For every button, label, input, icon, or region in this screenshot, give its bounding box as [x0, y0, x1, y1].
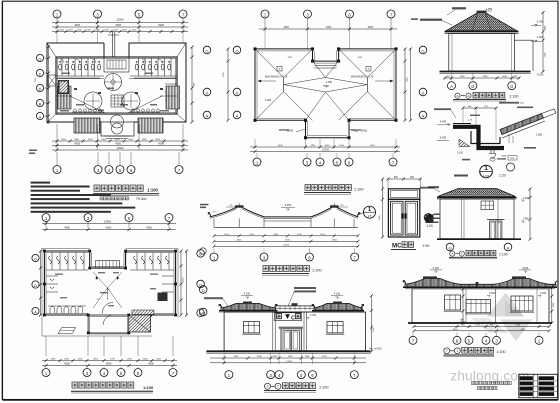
front elevation left roof (curved, tiled) [219, 302, 278, 311]
svg-text:A: A [202, 310, 205, 315]
floor plan right vertical dimension lines [180, 250, 189, 317]
front elevation pilasters [273, 312, 307, 351]
side elevation ground line [440, 71, 531, 73]
roof section dimension lines [213, 234, 360, 248]
svg-text:4.250: 4.250 [326, 81, 333, 84]
svg-text:D: D [422, 90, 425, 95]
svg-text:4.450: 4.450 [285, 203, 292, 207]
svg-text:0.900: 0.900 [523, 218, 530, 221]
svg-text:4.450: 4.450 [440, 120, 447, 123]
project description text (simulated CJK) [472, 381, 512, 389]
svg-text:2151: 2151 [358, 57, 364, 59]
svg-text:4.150: 4.150 [433, 267, 440, 270]
svg-text:0.150: 0.150 [457, 151, 464, 154]
svg-text:D: D [39, 87, 42, 91]
site plan bottom exterior stairs right (hatched) [138, 118, 163, 133]
svg-text:1300: 1300 [86, 30, 92, 32]
gutter detail left annotations [434, 108, 470, 160]
floor plan column squares [43, 250, 177, 317]
roof plan right axis circles and dims [404, 46, 427, 122]
svg-text:1300: 1300 [339, 145, 345, 147]
stair detail bottom-left note [454, 175, 468, 177]
svg-text:4000: 4000 [106, 226, 112, 230]
svg-text:-0.020: -0.020 [536, 74, 544, 77]
svg-text:4300: 4300 [115, 142, 121, 146]
svg-text:1800: 1800 [502, 76, 508, 78]
svg-text:G: G [34, 257, 37, 261]
svg-text:4300: 4300 [158, 142, 164, 146]
floor plan porch [88, 315, 129, 334]
floor plan bottom axis circles 1 3 4 5 6 7 [42, 367, 177, 377]
rear elevation title [444, 347, 506, 356]
svg-text:2151: 2151 [288, 57, 294, 59]
front elevation right dim column [369, 294, 382, 353]
svg-text:DN50: DN50 [501, 156, 507, 158]
svg-text:4300: 4300 [158, 23, 164, 27]
svg-text:2%: 2% [213, 211, 216, 213]
rear elevation right dim column [550, 286, 555, 325]
site plan dark planter block left [58, 80, 69, 94]
svg-text:1300: 1300 [115, 139, 121, 141]
svg-text:1800: 1800 [155, 139, 161, 141]
roof plan left axis circles twin columns [203, 46, 241, 122]
site plan roof overhang outline with notch [47, 43, 104, 122]
roof plan title (simulated CJK) [304, 185, 364, 195]
floor plan exterior stairs hatched (bottom right) [129, 315, 151, 332]
floor drainage plan: top axis circles [42, 214, 173, 229]
site plan top dimension lines [52, 18, 188, 33]
site plan bottom porch [101, 122, 134, 136]
svg-text:4.150: 4.150 [483, 174, 490, 178]
svg-text:1300: 1300 [64, 359, 70, 361]
svg-text:12900: 12900 [286, 361, 293, 363]
rear elevation eave thick line [403, 286, 557, 288]
rear elevation window right [510, 292, 547, 312]
site plan interior stair hatch left [58, 86, 72, 109]
svg-text:A: A [206, 113, 209, 118]
svg-text:G: G [510, 84, 513, 89]
watermark zhulong logo diamond [471, 293, 533, 342]
rear elevation left small dims [460, 288, 465, 325]
svg-text:G: G [448, 245, 451, 250]
svg-text:1500: 1500 [143, 359, 149, 361]
site plan bottom dimension lines [52, 124, 188, 152]
svg-text:1:100: 1:100 [497, 350, 506, 354]
svg-text:G: G [39, 57, 42, 61]
svg-text:1:50: 1:50 [426, 224, 432, 228]
rear elevation: apex level labels [430, 267, 531, 273]
rear elevation window left [444, 295, 462, 311]
svg-text:±0.000: ±0.000 [374, 348, 382, 351]
floor plan right wing stalls and fixtures [130, 253, 174, 292]
svg-text:1:50: 1:50 [423, 244, 430, 248]
site plan bottom axis circles 1 3 4 5 6 7 [53, 152, 183, 174]
svg-text:4300: 4300 [64, 362, 70, 366]
site plan central table grid [111, 95, 124, 107]
svg-text:1500: 1500 [68, 30, 74, 32]
right small elevation right levels [521, 188, 532, 241]
svg-text:1%: 1% [106, 289, 109, 291]
svg-text:1800: 1800 [51, 359, 57, 361]
rear elevation wall body [412, 289, 549, 323]
front elevation right window [326, 322, 345, 335]
svg-text:1300: 1300 [77, 30, 83, 32]
svg-text:1500: 1500 [122, 30, 128, 32]
floor plan right wing bench hatch [132, 310, 154, 315]
svg-text:1:100: 1:100 [319, 385, 329, 389]
roof section profile curves [208, 204, 360, 219]
front elevation center parapet [276, 303, 315, 310]
roof plan inner eave line [257, 51, 311, 118]
svg-text:4300: 4300 [148, 362, 154, 366]
site plan area note [100, 197, 147, 201]
svg-text:1%: 1% [96, 299, 99, 301]
svg-text:1800: 1800 [460, 76, 466, 78]
svg-text:12900: 12900 [116, 18, 124, 22]
svg-text:1800: 1800 [127, 359, 133, 361]
roof plan middle valley diamond [284, 78, 368, 93]
roof plan corridor connector lines in notch [315, 65, 337, 67]
site/tour plan: top axis circles 1 3 5 7 [53, 10, 187, 23]
gutter detail thick channel profile [453, 127, 504, 148]
svg-text:1300: 1300 [59, 30, 65, 32]
right small elevation ground [437, 238, 521, 240]
front elevation title [264, 383, 329, 392]
svg-text:4300: 4300 [74, 142, 80, 146]
front elevation sign board men/women [275, 313, 302, 322]
svg-text:1: 1 [267, 385, 269, 389]
side elevation right level marks and dim column [531, 11, 547, 77]
svg-text:4500: 4500 [370, 145, 376, 147]
svg-text:A: A [451, 252, 453, 256]
svg-text:D: D [236, 90, 239, 95]
floor plan title (simulated CJK) [71, 382, 154, 393]
floor plan center door arcs [102, 302, 113, 313]
margin note near roof plan right [411, 18, 418, 20]
svg-text:G: G [421, 48, 424, 53]
roof section right detail circle [358, 206, 376, 218]
right small elevation clerestory window [481, 201, 494, 210]
roof plan hip lines right wing [339, 49, 396, 120]
MC door detail: door frame and leaves [388, 199, 419, 237]
front elevation ground line [206, 350, 370, 352]
stair detail extra annotation bars [468, 107, 536, 149]
svg-text:79.3m²: 79.3m² [136, 197, 147, 201]
svg-text:4.450: 4.450 [440, 136, 447, 139]
site plan misc fixtures and door swings [60, 59, 163, 113]
floor plan central vestibule louver [96, 261, 120, 268]
roof plan bottom axis circles [253, 153, 397, 166]
svg-text:1:100: 1:100 [312, 269, 322, 273]
svg-text:WSG4/WSG2-2-1.75: WSG4/WSG2-2-1.75 [265, 75, 288, 78]
front elevation right roof (curved, tiled) [312, 302, 364, 311]
side elevation eave band [445, 31, 519, 33]
MC door left dimension line [382, 179, 384, 237]
svg-text:1:100: 1:100 [499, 252, 508, 256]
gutter detail sloped slab hatch [500, 109, 556, 138]
front elevation axis circles [225, 371, 358, 379]
front elevation eave thick line [219, 310, 278, 312]
svg-text:4300: 4300 [285, 240, 291, 242]
rear elevation axis circles [409, 333, 543, 345]
front elevation wall body [224, 312, 365, 351]
svg-text:1: 1 [484, 165, 488, 172]
floor plan ramp left (hatched) [58, 328, 76, 334]
svg-text:1300: 1300 [113, 30, 119, 32]
floor plan left wing urinal row [48, 306, 86, 313]
left margin small annotations [29, 150, 37, 152]
svg-text:5400: 5400 [183, 277, 185, 283]
site plan fixtures row along bottom walls [74, 109, 160, 112]
title block frame [519, 374, 558, 397]
svg-text:1300: 1300 [74, 139, 80, 141]
svg-text:D: D [471, 84, 474, 89]
gutter detail wedge flashing [459, 139, 470, 147]
title block black cells [519, 374, 558, 397]
svg-text:D: D [34, 284, 37, 288]
floor plan right wing mop sink dark [158, 293, 168, 302]
rear elevation bottom dimensions [413, 325, 551, 333]
svg-text:12900: 12900 [116, 146, 124, 150]
roof section eave and wall lines [214, 219, 358, 228]
site plan bottom exterior stairs left (hatched) [74, 118, 100, 133]
svg-text:1300: 1300 [156, 359, 162, 361]
front elevation top annotations [204, 287, 343, 308]
MC right annotation [428, 186, 439, 188]
site plan left axis circles G E D B A [35, 45, 50, 124]
svg-text:1300: 1300 [132, 30, 138, 32]
svg-text:1.280: 1.280 [536, 134, 543, 137]
svg-text:4.350: 4.350 [537, 21, 544, 24]
roof section apex label 4.450 [281, 203, 295, 211]
site plan lobby large circles [105, 74, 122, 91]
svg-text:13100: 13100 [322, 148, 330, 152]
rear elevation window middle [465, 292, 496, 314]
svg-text:1500: 1500 [78, 359, 84, 361]
roof plan top dimension line [259, 26, 397, 30]
floor plan top dimension lines [42, 220, 176, 231]
svg-text:D: D [202, 288, 205, 293]
svg-text:1300: 1300 [310, 145, 316, 147]
svg-text:1:20: 1:20 [499, 174, 506, 178]
right small elevation axis circles [446, 243, 454, 251]
site plan roof hip corner miters [47, 43, 56, 57]
roof plan outer eave outline with notch and porch [255, 49, 313, 120]
right small elevation roof [437, 189, 517, 200]
svg-text:A: A [450, 84, 453, 89]
svg-text:4300: 4300 [368, 26, 374, 29]
svg-text:1300: 1300 [104, 30, 110, 32]
site plan left attached ramp [48, 75, 56, 86]
svg-text:1500: 1500 [88, 139, 94, 141]
roof section title (simulated CJK) [262, 266, 322, 276]
roof section slope % labels [213, 205, 348, 214]
svg-text:4000: 4000 [106, 362, 112, 366]
roof plan: top axis circles [261, 10, 395, 49]
svg-text:A: A [456, 94, 458, 98]
svg-text:2.200: 2.200 [537, 36, 544, 39]
site plan interior partitions right wing [130, 58, 177, 100]
svg-text:2%: 2% [229, 205, 232, 207]
svg-text:2.200: 2.200 [523, 197, 530, 200]
svg-text:1500: 1500 [325, 145, 331, 147]
rear elevation right roof [476, 276, 558, 287]
floor plan left vertical dimension line [40, 251, 42, 315]
detail reference circle 1 1:20 [480, 165, 506, 178]
site plan right vertical dimension line [191, 46, 196, 124]
svg-text:2400: 2400 [483, 76, 489, 78]
svg-text:1:100: 1:100 [147, 188, 158, 193]
svg-text:2%: 2% [340, 205, 343, 207]
gutter detail drain pipe and fittings [489, 148, 517, 171]
right small elevation: annotations [420, 187, 434, 189]
svg-text:G: G [205, 48, 208, 53]
svg-text:1500: 1500 [128, 139, 134, 141]
svg-text:4300: 4300 [74, 23, 80, 27]
floor plan bottom dimension lines [42, 336, 177, 367]
floor plan slope arrows in lobby [93, 272, 122, 308]
svg-text:4.150: 4.150 [522, 267, 529, 270]
svg-text:1:100: 1:100 [509, 94, 519, 98]
site plan interior partitions left wing [56, 58, 104, 100]
svg-text:D: D [206, 90, 209, 95]
svg-text:1800: 1800 [61, 139, 67, 141]
svg-text:A: A [236, 113, 239, 118]
svg-text:4300: 4300 [146, 226, 152, 230]
roof section axis circles 1 3 6 7 [200, 248, 359, 261]
front elevation door [279, 327, 303, 351]
svg-text:1:100: 1:100 [354, 188, 364, 192]
MC detail top dimension line [387, 177, 422, 189]
site plan inner wall rectangle [56, 57, 177, 114]
right small elevation wall body [440, 199, 514, 239]
side elevation bottom dimensions [443, 73, 520, 80]
floor plan apron (san shui) outline [42, 249, 153, 337]
roof drainage section: left margin note [200, 204, 209, 206]
svg-text:1: 1 [456, 349, 458, 353]
svg-text:4300: 4300 [326, 26, 332, 29]
MC door section mark circle [424, 214, 439, 224]
svg-text:12900: 12900 [104, 220, 112, 224]
svg-text:4.350: 4.350 [486, 7, 493, 11]
svg-text:C: C [291, 315, 295, 321]
svg-text:1300: 1300 [142, 139, 148, 141]
svg-text:1500: 1500 [95, 30, 101, 32]
front elevation: left axis circles D A [199, 286, 207, 294]
svg-text:DN50: DN50 [361, 130, 368, 133]
site plan interior text smudges [60, 73, 169, 112]
floor plan left axis circles [32, 254, 39, 314]
MC door detail: transom [388, 189, 419, 200]
svg-text:4500: 4500 [278, 145, 284, 147]
roof plan slope labels and arrows [258, 57, 393, 102]
svg-text:4300: 4300 [115, 23, 121, 27]
rear elevation ground line [408, 322, 552, 324]
svg-text:7: 7 [277, 385, 279, 389]
svg-text:1: 1 [368, 207, 371, 213]
floor plan interior text smudges [55, 272, 158, 306]
site plan axis leader lines [57, 23, 183, 44]
svg-text:4300: 4300 [332, 240, 338, 242]
side elevation rear wing line [515, 39, 534, 41]
svg-text:4.250: 4.250 [265, 99, 272, 102]
right small elevation title [449, 250, 508, 258]
roof plan column squares [254, 47, 398, 139]
svg-text:4.150: 4.150 [244, 293, 251, 296]
side elevation axis circles A D G [448, 82, 516, 90]
site plan chimney/flag pole lines at top notch [112, 32, 114, 58]
svg-text:7500: 7500 [35, 77, 37, 83]
site plan title block (simulated CJK) [93, 185, 159, 196]
svg-text:4300: 4300 [64, 226, 70, 230]
svg-text:2.700: 2.700 [310, 314, 317, 317]
svg-text:2.400: 2.400 [489, 292, 496, 295]
side elevation wall body [449, 34, 515, 71]
side elevation A-G: roof annotations [420, 7, 493, 25]
svg-text:7: 7 [446, 349, 448, 353]
floor plan right axis circles G D A [197, 250, 205, 317]
svg-text:WSG4/WSG2-2-1.75: WSG4/WSG2-2-1.75 [351, 75, 374, 78]
site plan interior corridor lines [56, 79, 177, 113]
svg-text:MC: MC [392, 243, 402, 250]
side elevation hip roof with tile texture [446, 11, 517, 31]
side elevation title [453, 92, 519, 101]
front elevation bottom dimensions [210, 353, 366, 364]
MC door title [391, 242, 430, 250]
legend text bars [31, 182, 136, 213]
svg-text:1:100: 1:100 [143, 385, 154, 390]
svg-text:1700: 1700 [110, 359, 116, 361]
rear elevation left roof [403, 276, 477, 287]
svg-text:1:5: 1:5 [368, 214, 372, 218]
floor plan left wing stalls and squat fixtures [46, 253, 88, 292]
site plan interior stair hatch right [166, 86, 180, 109]
front elevation left window [242, 322, 261, 335]
right small elevation black marker [426, 215, 434, 228]
svg-text:A: A [507, 245, 510, 250]
svg-text:1800: 1800 [93, 359, 99, 361]
svg-text:A: A [422, 113, 425, 118]
svg-text:2.400: 2.400 [540, 292, 547, 295]
svg-text:G: G [235, 48, 238, 53]
roof plan bottom dimension lines [250, 139, 400, 153]
svg-text:4300: 4300 [284, 26, 290, 29]
gutter detail: top dimension lines [462, 102, 525, 140]
site plan central vestibule [104, 57, 129, 72]
svg-text:4.150: 4.150 [334, 293, 341, 296]
svg-text:1300: 1300 [101, 139, 107, 141]
roof plan hip lines left wing [255, 49, 313, 120]
floor plan outer walls with notch and porch [44, 251, 89, 315]
svg-text:12900: 12900 [283, 245, 290, 247]
svg-text:4300: 4300 [237, 240, 243, 242]
roof plan porch drain labels DN50 [279, 129, 368, 133]
right small elevation door [487, 220, 505, 239]
floor plan inner wall line [46, 253, 88, 314]
